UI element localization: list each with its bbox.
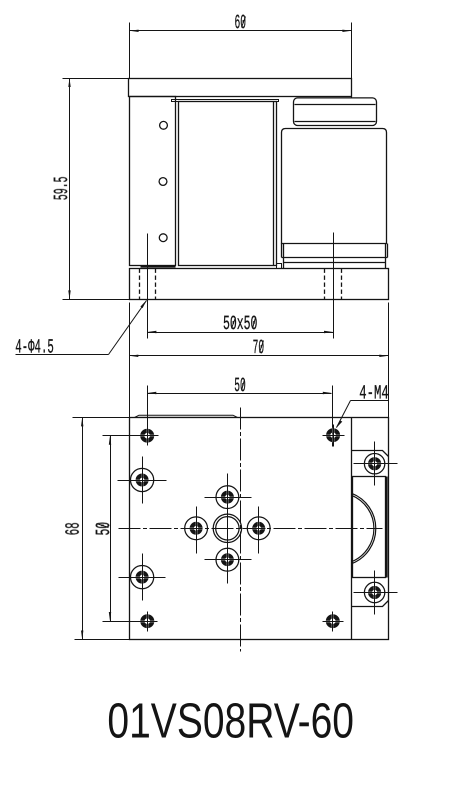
carriage edge sliver	[135, 415, 238, 417]
plan plate	[130, 418, 389, 640]
dim 70 arrow left	[129, 355, 138, 357]
dim 60 arrow left	[130, 30, 139, 32]
dim 50x50 text	[223, 313, 257, 336]
dim 50v line	[110, 436, 112, 622]
diamond vertical line	[227, 474, 229, 584]
dim 60 extension left	[129, 23, 131, 79]
dim 59.5 line	[69, 79, 71, 300]
side hole top	[354, 442, 398, 486]
dim 50h text	[234, 375, 246, 398]
svg-text:70: 70	[253, 337, 265, 360]
dim 50x50 line	[148, 332, 334, 334]
diamond hole bottom	[205, 548, 252, 571]
dim 50v extension top	[103, 435, 159, 437]
side plate bottom section	[352, 601, 389, 607]
motor flange	[282, 244, 388, 269]
dim 70 text	[253, 337, 265, 360]
dim 50v text	[93, 522, 116, 536]
dim 59.5 extension top	[63, 78, 129, 80]
side hole bottom	[354, 571, 398, 615]
left bracket	[130, 97, 176, 266]
motor body	[282, 129, 387, 244]
corner hole BL	[131, 612, 158, 632]
carriage body	[179, 102, 277, 266]
center hole	[213, 514, 241, 542]
counterbore hole A	[118, 457, 167, 504]
dim 68 arrow top	[81, 417, 83, 426]
carriage top lip	[172, 100, 279, 102]
dim 50v arrow bottom	[109, 612, 111, 621]
dim 70 line	[130, 355, 389, 357]
diamond hole left	[185, 507, 208, 554]
dim 68 extension bottom	[75, 639, 130, 641]
svg-text:50x50: 50x50	[223, 313, 257, 336]
top plate	[129, 79, 352, 97]
svg-text:59.5: 59.5	[51, 176, 74, 200]
base plate	[130, 269, 389, 300]
svg-text:4-M4: 4-M4	[359, 382, 388, 405]
svg-text:50: 50	[234, 375, 246, 398]
knob	[294, 98, 377, 126]
side plate divider	[351, 418, 353, 640]
dim 50h extension left	[147, 386, 149, 446]
dim 60 extension right	[351, 23, 353, 99]
leader 4-phi4.5	[15, 300, 146, 359]
motor foot box	[277, 264, 282, 269]
dim 60 text	[235, 12, 247, 35]
dim 50h arrow right	[323, 392, 332, 394]
base hole left dashed	[140, 269, 156, 300]
dim 59.5 arrow top	[68, 78, 70, 87]
window arc inner	[352, 495, 374, 561]
diamond hole top	[205, 486, 252, 509]
dim 60 arrow right	[342, 30, 351, 32]
svg-text:01VS08RV-60: 01VS08RV-60	[107, 694, 354, 749]
side plate top section	[352, 451, 389, 457]
corner hole TR	[323, 425, 345, 447]
gap thick line	[141, 265, 176, 267]
sensor window	[353, 477, 386, 578]
dim 59.5 arrow bottom	[68, 290, 70, 299]
dim 59.5 extension bottom	[63, 299, 130, 301]
window arc outer	[352, 493, 376, 563]
dim 50x50 arrow left	[147, 331, 156, 333]
corner hole BR	[323, 612, 344, 632]
svg-text:4-Φ4.5: 4-Φ4.5	[15, 336, 54, 359]
bracket hole 2	[159, 178, 167, 186]
dim 50v arrow top	[109, 436, 111, 445]
svg-text:68: 68	[63, 522, 86, 535]
center line horizontal	[119, 528, 383, 530]
bracket hole 3	[159, 234, 167, 242]
corner hole TL	[132, 425, 159, 446]
dim 70 arrow right	[379, 355, 388, 357]
carriage inner edge	[273, 102, 275, 266]
base hole right center line	[333, 233, 335, 339]
base hole right dashed	[325, 269, 342, 300]
dim 50v extension bottom	[103, 621, 158, 623]
base hole left center line	[147, 234, 149, 339]
dim 50h arrow left	[147, 392, 156, 394]
dim 68 arrow bottom	[81, 631, 83, 640]
svg-text:60: 60	[235, 12, 247, 35]
dim 50x50 arrow right	[324, 331, 333, 333]
sensor window thick edge	[385, 477, 387, 578]
dim 60 line	[130, 30, 352, 32]
diamond hole right	[247, 507, 270, 554]
dim 68 line	[82, 418, 84, 640]
dim 68 extension top	[73, 417, 130, 419]
leader 4-M4	[336, 382, 389, 428]
dim 50h line	[148, 393, 332, 395]
bracket hole 1	[160, 121, 168, 129]
projection line right	[388, 303, 390, 418]
center line vertical	[240, 408, 242, 652]
dim 50h extension right	[332, 386, 334, 447]
counterbore hole B	[119, 554, 166, 601]
projection line left	[129, 303, 131, 418]
